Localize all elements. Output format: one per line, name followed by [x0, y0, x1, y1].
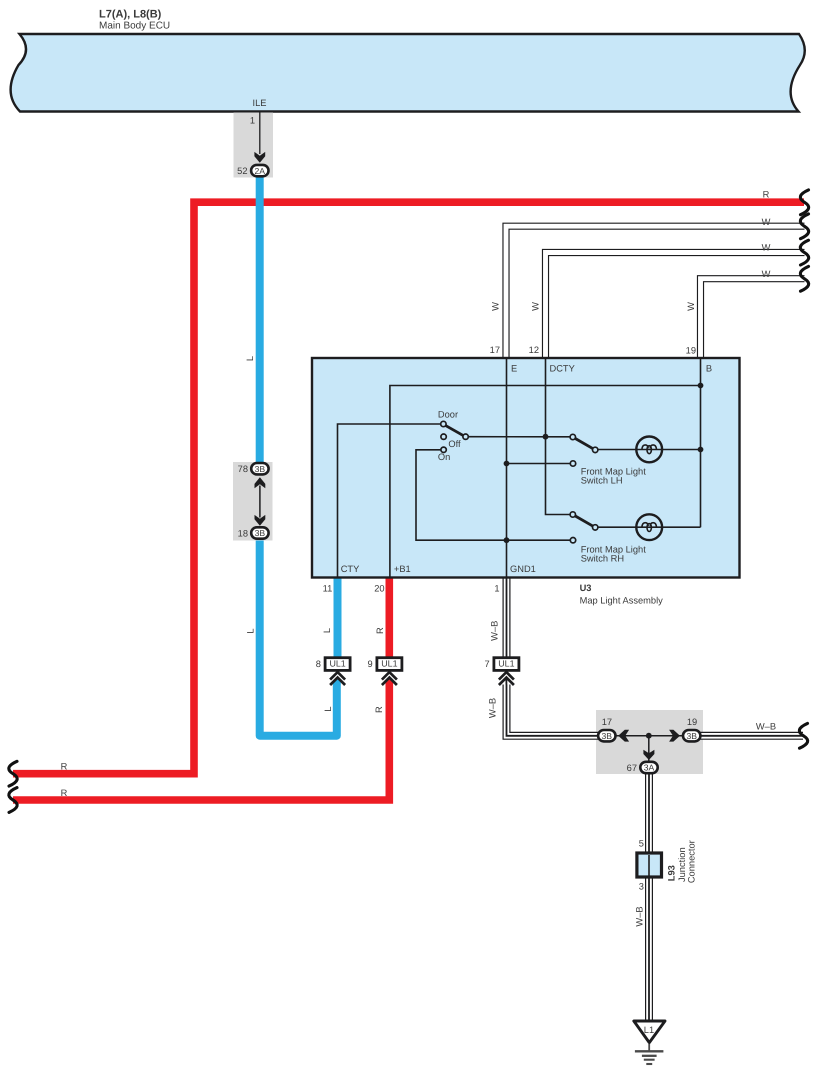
svg-text:R: R	[763, 190, 770, 200]
svg-text:L7(A), L8(B): L7(A), L8(B)	[99, 9, 162, 21]
svg-text:5: 5	[639, 838, 644, 848]
svg-text:W: W	[762, 217, 771, 227]
svg-text:W: W	[491, 302, 501, 311]
svg-text:UL1: UL1	[498, 658, 514, 668]
ground stem	[648, 1044, 650, 1051]
junction line down to 3A	[648, 736, 650, 761]
wire break squiggle W-B right	[799, 723, 807, 748]
svg-text:19: 19	[686, 345, 696, 355]
svg-text:Map Light Assembly: Map Light Assembly	[580, 595, 664, 605]
3B gray box redraw over blue wire	[233, 462, 273, 541]
connector 3B-3B gray box	[233, 462, 273, 541]
connector 2A gray box	[234, 113, 274, 178]
svg-text:L93: L93	[667, 865, 677, 881]
svg-text:Main Body ECU: Main Body ECU	[99, 21, 170, 32]
contact circle Door	[441, 421, 446, 426]
connector 3B up arrow	[255, 477, 266, 488]
svg-text:3B: 3B	[255, 464, 266, 474]
wire RH contact to lamp to B	[598, 526, 701, 528]
internal wire +B1 up and across to B	[390, 386, 701, 578]
svg-text:L: L	[246, 628, 256, 633]
svg-text:12: 12	[529, 345, 539, 355]
svg-text:R: R	[375, 627, 385, 634]
junction gray box (3B/3B/3A)	[596, 710, 703, 774]
wire from Door contact to LH switch	[468, 436, 570, 438]
svg-text:L: L	[245, 356, 255, 361]
junction dot B/LH lamp	[698, 447, 704, 453]
svg-text:18: 18	[238, 529, 248, 539]
wire W-B from UL1-7 to junction	[506, 678, 598, 736]
svg-text:W: W	[762, 242, 771, 252]
svg-text:Switch LH: Switch LH	[581, 476, 623, 486]
switch LH pivot circle	[570, 434, 575, 439]
svg-text:+B1: +B1	[394, 564, 411, 574]
junction right arrow	[669, 730, 680, 742]
switch RH pivot circle	[570, 512, 575, 517]
svg-text:1: 1	[494, 583, 499, 593]
contact circle Door lever end	[463, 434, 468, 439]
internal wire E/GND1 vertical	[506, 358, 508, 577]
svg-text:W–B: W–B	[635, 906, 645, 926]
svg-text:R: R	[374, 706, 384, 713]
wire W-B from GND1 to UL1-7	[503, 577, 511, 657]
lamp RH	[636, 514, 662, 540]
svg-text:W–B: W–B	[756, 722, 776, 732]
internal wire LH lower contact from GND1	[507, 463, 571, 465]
junction dot DCTY/Door wire	[543, 434, 549, 440]
connector 2A pin line	[259, 112, 261, 154]
connector oval 3B top (78)	[251, 463, 268, 474]
wire W (E pin 17)	[506, 226, 808, 358]
svg-text:78: 78	[238, 464, 248, 474]
svg-text:7: 7	[485, 659, 490, 669]
switch RH lever	[575, 516, 593, 526]
svg-text:17: 17	[602, 717, 612, 727]
contact circle On	[441, 447, 446, 452]
connector 3B arrow shaft	[259, 486, 261, 518]
svg-text:2A: 2A	[255, 166, 266, 176]
wire red R from +B1 pin to UL1-9	[385, 577, 393, 657]
switch RH contact circle	[593, 525, 598, 530]
svg-text:UL1: UL1	[381, 658, 397, 668]
connector oval 3B left (17)	[598, 730, 615, 741]
junction thin line between 3B ovals	[616, 735, 683, 737]
wire W-B from 3A down to ground	[645, 774, 653, 1022]
svg-text:W–B: W–B	[490, 621, 500, 641]
svg-text:1: 1	[250, 116, 255, 126]
svg-text:3B: 3B	[686, 731, 697, 741]
connector UL1 (9) box	[377, 658, 402, 671]
internal wire B vertical	[700, 358, 702, 527]
wire W (DCTY pin 12)	[546, 253, 808, 359]
wire break squiggle red left 1	[9, 761, 17, 786]
svg-text:W–B: W–B	[488, 698, 498, 718]
connector oval 3B bottom (18)	[251, 527, 268, 538]
junction dot GND1/RH contact	[504, 537, 510, 543]
svg-text:19: 19	[687, 717, 697, 727]
svg-text:3B: 3B	[255, 528, 266, 538]
svg-text:UL1: UL1	[329, 658, 345, 668]
connector UL1 (7) box	[494, 658, 519, 671]
svg-text:B: B	[706, 364, 712, 374]
svg-text:17: 17	[490, 345, 500, 355]
svg-text:DCTY: DCTY	[550, 364, 575, 374]
svg-text:GND1: GND1	[510, 564, 536, 574]
wire break squiggle W3 right	[800, 266, 808, 291]
svg-text:W: W	[762, 269, 771, 279]
svg-text:W: W	[531, 302, 541, 311]
switch lever Door	[445, 425, 463, 435]
junction connector L93 square	[637, 853, 662, 877]
svg-text:20: 20	[374, 583, 384, 593]
svg-text:On: On	[438, 452, 450, 462]
connector UL1 (8) box	[325, 658, 350, 671]
junction dot	[646, 733, 652, 739]
switch LH lever	[575, 439, 593, 449]
svg-text:11: 11	[323, 583, 333, 593]
svg-text:9: 9	[368, 659, 373, 669]
svg-text:L: L	[322, 628, 332, 633]
tracer through L93	[648, 855, 650, 876]
svg-text:8: 8	[316, 659, 321, 669]
lamp LH	[636, 437, 662, 463]
junction dot GND1/LH contact	[504, 461, 510, 467]
svg-text:52: 52	[237, 166, 247, 176]
connector oval 2A	[251, 165, 268, 176]
svg-text:ILE: ILE	[253, 98, 267, 108]
wire break squiggle red top right	[800, 190, 808, 215]
svg-text:3A: 3A	[644, 763, 655, 773]
chevrons UL1-9	[382, 674, 397, 682]
internal wire DCTY vertical	[546, 358, 571, 515]
switch LH contact circle	[593, 447, 598, 452]
svg-text:E: E	[511, 364, 517, 374]
wire blue L from CTY pin to UL1-8	[334, 577, 342, 657]
svg-text:Off: Off	[448, 439, 461, 449]
svg-text:67: 67	[627, 763, 637, 773]
svg-text:CTY: CTY	[341, 564, 360, 574]
internal wire On branch to GND1	[416, 450, 570, 540]
wire break squiggle W1 right	[800, 214, 808, 239]
wire red R from ECU area right to left and down (top)	[13, 202, 804, 774]
chevrons UL1-8	[330, 674, 345, 682]
connector oval 3A (67)	[640, 762, 657, 773]
wire blue L main from 2A down and to UL1-8	[260, 171, 337, 736]
svg-text:R: R	[61, 788, 68, 798]
wire break squiggle red left 2	[9, 788, 17, 813]
svg-text:L1: L1	[644, 1025, 654, 1035]
svg-text:R: R	[61, 762, 68, 772]
wire break squiggle W2 right	[800, 240, 808, 265]
connector 2A arrow	[254, 152, 265, 163]
ground triangle L1	[634, 1021, 665, 1043]
switch RH lower contact circle	[570, 538, 575, 543]
connector oval 3B right (19)	[683, 730, 700, 741]
svg-text:3B: 3B	[602, 731, 613, 741]
svg-text:3: 3	[639, 882, 644, 892]
ground bars	[635, 1050, 664, 1052]
svg-text:Door: Door	[438, 409, 458, 419]
internal wire CTY up and to Door switch	[338, 424, 441, 577]
svg-text:L: L	[323, 706, 333, 711]
Map Light Assembly box U3	[312, 358, 740, 578]
junction dot B/+B1	[698, 383, 704, 389]
svg-text:Connector: Connector	[687, 840, 697, 883]
switch LH lower contact circle	[570, 461, 575, 466]
contact circle Off	[441, 434, 446, 439]
wire red R lower from left edge to UL1-9	[13, 678, 389, 800]
svg-text:Switch RH: Switch RH	[581, 554, 624, 564]
chevrons UL1-7	[499, 674, 514, 682]
connector 3B down arrow	[255, 515, 266, 526]
ECU band L7(A),L8(B) Main Body ECU	[11, 34, 805, 112]
wire W (B pin 19)	[701, 279, 808, 358]
wire LH contact to lamp to B	[598, 449, 701, 451]
svg-text:U3: U3	[580, 583, 592, 593]
junction left arrow	[618, 730, 629, 742]
svg-text:W: W	[686, 302, 696, 311]
junction down arrow	[643, 750, 654, 760]
wire W-B from junction right to break	[701, 732, 807, 740]
